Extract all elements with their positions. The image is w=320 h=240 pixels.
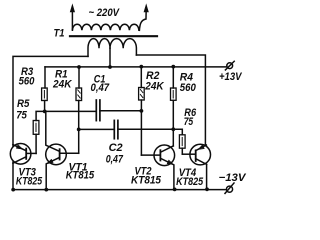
label VT3 KT825 <box>16 167 43 188</box>
wire: +13V top bus <box>45 66 227 68</box>
node: center tap junction <box>108 65 112 69</box>
node: VT2 emitter at bus <box>173 188 177 192</box>
node A junction dot <box>43 110 47 114</box>
label VT2 KT815 <box>131 165 162 186</box>
transistor VT4 (KT825 PNP) <box>182 144 210 189</box>
node: R1 top junction <box>77 65 81 69</box>
svg-text:KT815: KT815 <box>131 175 162 187</box>
label R2 24K <box>144 70 164 93</box>
label C1 0,47 <box>91 74 110 95</box>
svg-text:24K: 24K <box>52 78 72 90</box>
label C2 0,47 <box>106 142 124 166</box>
transformer T1 primary winding <box>72 9 146 31</box>
primary right arrow head <box>144 5 148 13</box>
primary left arrow head <box>70 5 74 13</box>
resistor R5 <box>33 121 39 154</box>
node: VT3 collector at bus <box>11 188 15 192</box>
transformer core <box>70 35 157 37</box>
transistor VT2 (KT815 NPN) <box>141 145 174 189</box>
node: VT1 base / C2 left junction <box>77 127 81 131</box>
svg-text:−13V: −13V <box>219 172 247 184</box>
wire: secondary left end to left rail <box>13 56 88 146</box>
svg-text:C2: C2 <box>109 142 124 154</box>
label -13V <box>219 172 247 184</box>
node: VT4 collector at bus <box>205 187 209 191</box>
svg-text:KT825: KT825 <box>176 176 204 188</box>
resistor R4 <box>171 67 177 146</box>
transistor VT3 (KT825 PNP) <box>10 144 36 190</box>
svg-text:~ 220V: ~ 220V <box>89 7 120 19</box>
svg-text:0,47: 0,47 <box>91 82 110 94</box>
svg-text:24K: 24K <box>144 81 164 93</box>
svg-text:R5: R5 <box>17 98 30 110</box>
terminal -13V <box>225 183 234 193</box>
wire: R1 bottom to VT1 base (crosses node A line) <box>78 101 80 154</box>
svg-text:KT825: KT825 <box>16 175 43 187</box>
label R5 75 <box>16 98 30 121</box>
resistor R3 <box>42 67 48 112</box>
capacitor C1 <box>96 100 141 121</box>
svg-text:560: 560 <box>180 82 197 94</box>
resistor R1 <box>76 67 82 101</box>
label R1 24K <box>52 69 72 91</box>
terminal +13V <box>225 61 234 70</box>
label VT4 KT825 <box>176 167 204 188</box>
svg-text:KT815: KT815 <box>66 169 95 181</box>
node: C1 right / R2 bottom junction <box>140 109 144 113</box>
label R4 560 <box>180 72 197 94</box>
svg-text:75: 75 <box>16 109 27 121</box>
resistor R2 <box>139 67 145 155</box>
capacitor C2 <box>79 120 174 138</box>
wire: node A horizontal (R5 top, R3 bottom, VT1 collector, C1 left) <box>36 111 96 120</box>
wire: bottom -13V bus <box>13 189 226 191</box>
label R3 560 <box>19 66 35 87</box>
resistor R6 <box>173 129 185 154</box>
node B junction (R4 bottom, C2 right, R6 top, VT2 collector) <box>171 127 175 131</box>
svg-text:T1: T1 <box>54 28 65 40</box>
transformer T1 secondary winding <box>88 39 136 57</box>
svg-text:+13V: +13V <box>219 71 242 83</box>
wire: secondary right end to right rail <box>136 55 205 145</box>
wire: secondary center tap to +13V bus <box>109 48 111 67</box>
label R6 75 <box>184 107 197 128</box>
svg-text:75: 75 <box>184 116 194 128</box>
node: R2 top junction <box>139 65 143 69</box>
svg-text:0,47: 0,47 <box>106 153 124 165</box>
transistor VT1 (KT815 NPN) <box>46 111 79 189</box>
node: VT1 emitter at bus <box>44 188 48 192</box>
svg-text:560: 560 <box>19 75 35 87</box>
node: R4 top junction <box>171 65 175 69</box>
label VT1 KT815 <box>66 161 95 181</box>
